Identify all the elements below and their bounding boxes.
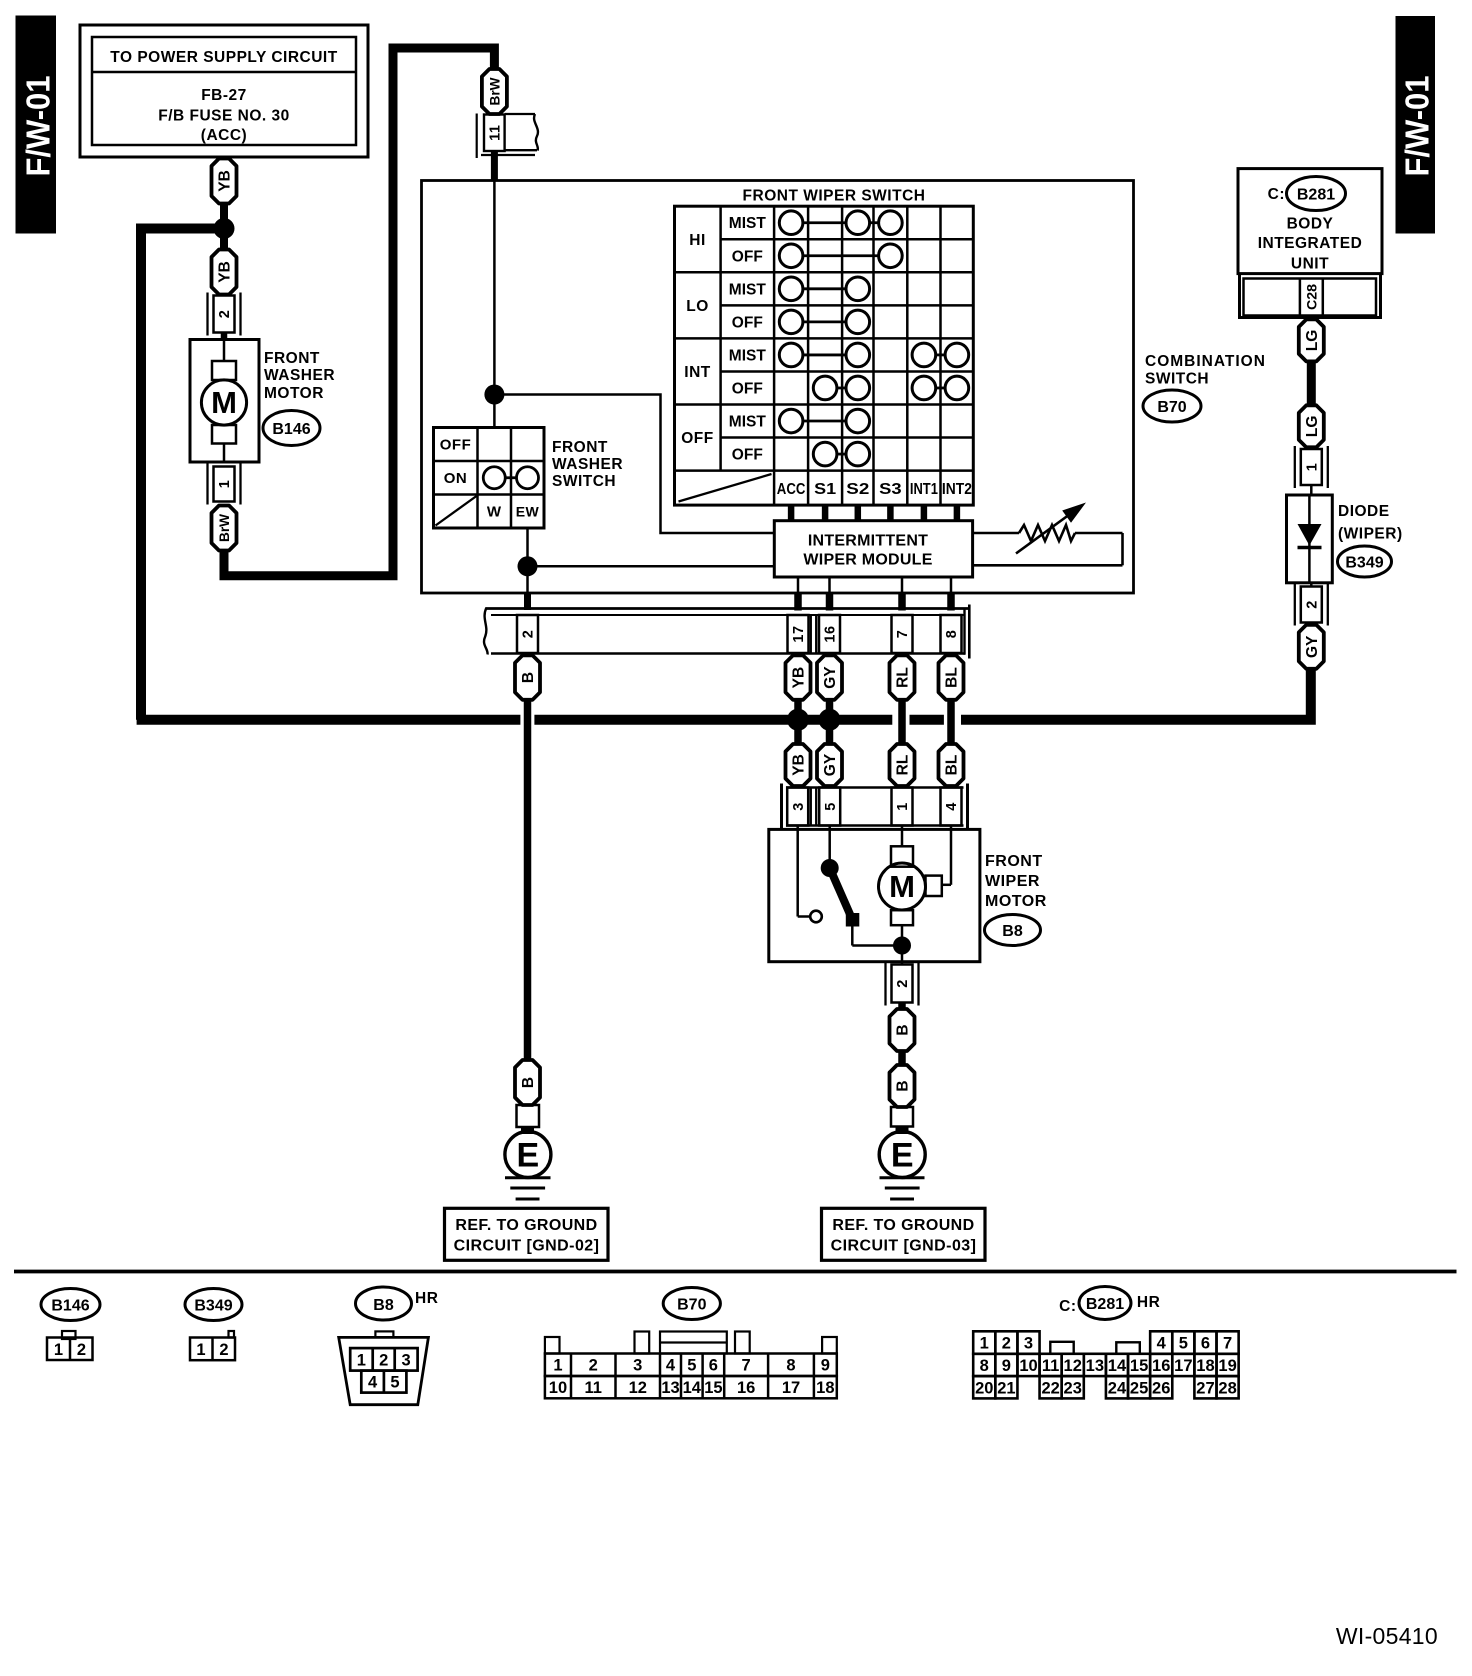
svg-text:8: 8: [786, 1357, 795, 1375]
svg-text:14: 14: [683, 1379, 702, 1397]
svg-text:SWITCH: SWITCH: [552, 473, 616, 490]
svg-text:9: 9: [1002, 1357, 1011, 1375]
svg-text:ON: ON: [444, 470, 468, 487]
svg-text:FRONT: FRONT: [552, 439, 608, 456]
svg-text:4: 4: [666, 1357, 676, 1375]
svg-text:EW: EW: [516, 504, 540, 520]
svg-text:UNIT: UNIT: [1291, 256, 1329, 273]
svg-text:MIST: MIST: [729, 281, 767, 298]
svg-text:RL: RL: [895, 755, 912, 776]
svg-text:B70: B70: [1157, 399, 1186, 416]
svg-text:B: B: [520, 1077, 537, 1088]
svg-text:3: 3: [402, 1351, 411, 1369]
svg-text:1: 1: [357, 1351, 366, 1369]
svg-text:3: 3: [791, 802, 807, 811]
svg-text:BODY: BODY: [1287, 216, 1334, 233]
svg-text:YB: YB: [217, 261, 234, 283]
svg-text:4: 4: [368, 1374, 378, 1392]
svg-text:6: 6: [709, 1357, 718, 1375]
svg-text:S3: S3: [879, 481, 902, 498]
svg-text:5: 5: [687, 1357, 696, 1375]
svg-text:REF. TO GROUND: REF. TO GROUND: [455, 1217, 597, 1234]
svg-text:GY: GY: [1304, 635, 1321, 658]
svg-text:B: B: [895, 1024, 912, 1035]
svg-text:OFF: OFF: [732, 314, 763, 331]
svg-text:B349: B349: [1345, 554, 1383, 571]
svg-text:15: 15: [1130, 1357, 1148, 1375]
svg-text:OFF: OFF: [681, 430, 714, 447]
svg-text:1: 1: [1305, 463, 1321, 472]
svg-text:B: B: [895, 1080, 912, 1091]
svg-text:MOTOR: MOTOR: [985, 893, 1047, 910]
svg-text:C:: C:: [1268, 186, 1285, 203]
svg-text:4: 4: [944, 802, 960, 811]
svg-text:FRONT WIPER SWITCH: FRONT WIPER SWITCH: [743, 188, 926, 205]
svg-text:1: 1: [54, 1341, 63, 1359]
svg-text:HR: HR: [415, 1290, 438, 1307]
svg-text:2: 2: [895, 979, 911, 988]
svg-text:B146: B146: [272, 421, 310, 438]
svg-text:INT1: INT1: [910, 481, 938, 498]
svg-text:CIRCUIT [GND-03]: CIRCUIT [GND-03]: [831, 1237, 977, 1254]
svg-text:YB: YB: [791, 754, 808, 776]
svg-text:F/W-01: F/W-01: [1398, 76, 1435, 177]
svg-text:BL: BL: [944, 755, 961, 776]
svg-text:MIST: MIST: [729, 215, 767, 232]
svg-text:C28: C28: [1303, 284, 1319, 310]
svg-text:WIPER: WIPER: [985, 873, 1040, 890]
svg-text:E: E: [517, 1137, 540, 1175]
svg-text:(WIPER): (WIPER): [1338, 526, 1403, 543]
svg-text:WASHER: WASHER: [264, 367, 335, 384]
svg-text:2: 2: [379, 1351, 388, 1369]
svg-text:10: 10: [549, 1379, 567, 1397]
svg-text:BrW: BrW: [216, 513, 232, 542]
svg-text:B: B: [520, 672, 537, 683]
svg-text:1: 1: [217, 480, 233, 489]
svg-text:YB: YB: [217, 170, 234, 192]
svg-text:15: 15: [704, 1379, 722, 1397]
svg-text:INTERMITTENT: INTERMITTENT: [808, 533, 928, 550]
svg-text:HI: HI: [689, 232, 706, 249]
svg-text:BrW: BrW: [486, 77, 502, 106]
svg-text:14: 14: [1108, 1357, 1127, 1375]
svg-text:27: 27: [1196, 1379, 1214, 1397]
svg-text:COMBINATION: COMBINATION: [1145, 353, 1266, 370]
svg-text:B8: B8: [373, 1297, 394, 1314]
svg-text:M: M: [211, 385, 237, 420]
svg-text:B281: B281: [1086, 1296, 1124, 1313]
svg-text:M: M: [889, 869, 915, 904]
svg-text:B146: B146: [51, 1297, 89, 1314]
svg-text:TO POWER SUPPLY CIRCUIT: TO POWER SUPPLY CIRCUIT: [110, 49, 337, 66]
svg-text:FB-27: FB-27: [201, 87, 247, 104]
svg-text:OFF: OFF: [440, 437, 472, 454]
svg-text:B281: B281: [1297, 186, 1335, 203]
svg-text:B70: B70: [677, 1296, 706, 1313]
svg-text:1: 1: [980, 1335, 989, 1353]
svg-text:10: 10: [1019, 1357, 1037, 1375]
svg-text:17: 17: [1174, 1357, 1192, 1375]
svg-text:S2: S2: [846, 481, 869, 498]
svg-text:8: 8: [944, 630, 960, 639]
svg-text:7: 7: [742, 1357, 751, 1375]
svg-text:E: E: [891, 1137, 914, 1175]
svg-text:2: 2: [77, 1341, 86, 1359]
svg-text:WIPER MODULE: WIPER MODULE: [803, 552, 932, 569]
svg-text:19: 19: [1218, 1357, 1236, 1375]
svg-text:F/W-01: F/W-01: [19, 76, 56, 177]
svg-text:16: 16: [737, 1379, 755, 1397]
svg-text:6: 6: [1201, 1335, 1210, 1353]
svg-text:4: 4: [1157, 1335, 1167, 1353]
svg-text:B349: B349: [194, 1297, 232, 1314]
svg-text:7: 7: [895, 630, 911, 639]
svg-text:5: 5: [823, 802, 839, 811]
svg-text:2: 2: [219, 1341, 228, 1359]
svg-text:25: 25: [1130, 1379, 1148, 1397]
svg-text:MIST: MIST: [729, 347, 767, 364]
svg-text:17: 17: [791, 625, 807, 642]
svg-text:LG: LG: [1304, 416, 1321, 438]
svg-text:FRONT: FRONT: [264, 350, 320, 367]
svg-text:S1: S1: [814, 481, 836, 498]
svg-text:CIRCUIT [GND-02]: CIRCUIT [GND-02]: [454, 1237, 600, 1254]
svg-text:INT2: INT2: [942, 481, 972, 498]
svg-text:11: 11: [1042, 1357, 1059, 1375]
svg-text:26: 26: [1152, 1379, 1170, 1397]
svg-text:2: 2: [589, 1357, 598, 1375]
svg-text:GY: GY: [822, 666, 839, 689]
svg-text:13: 13: [661, 1379, 679, 1397]
svg-text:24: 24: [1108, 1379, 1127, 1397]
svg-text:2: 2: [217, 310, 233, 319]
svg-text:F/B FUSE NO. 30: F/B FUSE NO. 30: [158, 108, 290, 125]
svg-text:12: 12: [1064, 1357, 1082, 1375]
svg-text:1: 1: [196, 1341, 205, 1359]
svg-text:12: 12: [629, 1379, 647, 1397]
svg-text:HR: HR: [1137, 1294, 1160, 1311]
svg-text:LO: LO: [686, 298, 709, 315]
svg-text:28: 28: [1218, 1379, 1236, 1397]
svg-text:WI-05410: WI-05410: [1336, 1623, 1438, 1649]
svg-text:18: 18: [1196, 1357, 1214, 1375]
svg-text:3: 3: [1024, 1335, 1033, 1353]
svg-text:1: 1: [895, 802, 911, 811]
svg-text:11: 11: [585, 1379, 602, 1397]
svg-text:B8: B8: [1002, 923, 1023, 940]
svg-text:22: 22: [1041, 1379, 1059, 1397]
svg-text:OFF: OFF: [732, 447, 763, 464]
svg-text:INTEGRATED: INTEGRATED: [1258, 235, 1363, 252]
svg-text:3: 3: [633, 1357, 642, 1375]
svg-text:23: 23: [1064, 1379, 1082, 1397]
svg-text:16: 16: [1152, 1357, 1170, 1375]
svg-text:17: 17: [782, 1379, 800, 1397]
svg-text:MOTOR: MOTOR: [264, 385, 324, 402]
svg-text:ACC: ACC: [777, 481, 806, 498]
svg-text:9: 9: [821, 1357, 830, 1375]
svg-text:BL: BL: [944, 667, 961, 688]
svg-text:8: 8: [980, 1357, 989, 1375]
svg-text:13: 13: [1086, 1357, 1104, 1375]
svg-text:REF. TO GROUND: REF. TO GROUND: [832, 1217, 974, 1234]
svg-text:DIODE: DIODE: [1338, 503, 1390, 520]
svg-text:2: 2: [1305, 600, 1321, 609]
svg-text:7: 7: [1223, 1335, 1232, 1353]
svg-text:W: W: [487, 504, 502, 521]
svg-text:11: 11: [488, 125, 504, 141]
svg-text:GY: GY: [822, 753, 839, 776]
svg-text:YB: YB: [791, 667, 808, 689]
svg-text:16: 16: [823, 625, 839, 642]
svg-text:(ACC): (ACC): [201, 127, 247, 144]
svg-text:5: 5: [1179, 1335, 1188, 1353]
svg-text:18: 18: [816, 1379, 834, 1397]
svg-text:20: 20: [975, 1379, 993, 1397]
svg-text:SWITCH: SWITCH: [1145, 371, 1209, 388]
svg-text:C:: C:: [1059, 1298, 1076, 1315]
svg-text:RL: RL: [895, 667, 912, 688]
svg-text:MIST: MIST: [729, 414, 767, 431]
svg-text:5: 5: [390, 1374, 399, 1392]
svg-text:OFF: OFF: [732, 248, 763, 265]
svg-text:FRONT: FRONT: [985, 853, 1043, 870]
svg-text:21: 21: [997, 1379, 1015, 1397]
svg-text:1: 1: [553, 1357, 562, 1375]
svg-text:WASHER: WASHER: [552, 456, 623, 473]
svg-text:LG: LG: [1304, 330, 1321, 352]
svg-text:2: 2: [521, 630, 537, 639]
svg-text:INT: INT: [684, 364, 711, 381]
svg-text:OFF: OFF: [732, 380, 763, 397]
svg-text:2: 2: [1002, 1335, 1011, 1353]
